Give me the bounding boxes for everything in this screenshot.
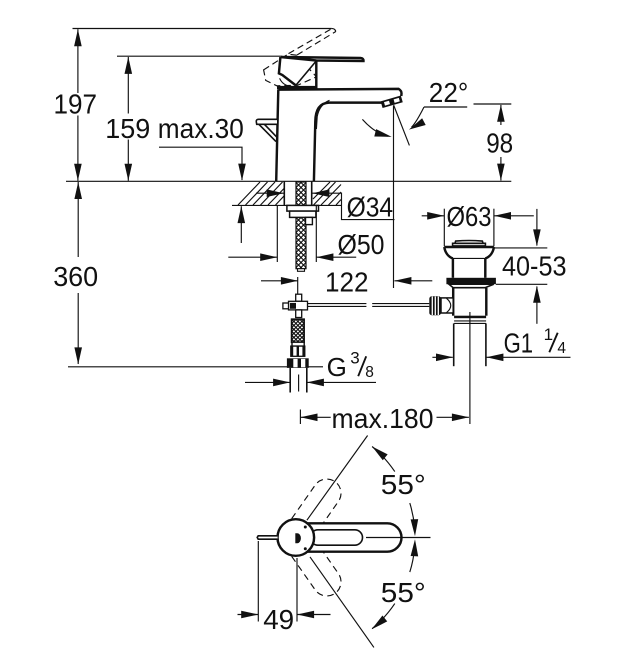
drain upper body [452,258,454,277]
braided hose [292,319,305,342]
svg-text:122: 122 [325,267,369,298]
dimension 98 ref line [474,103,512,105]
svg-text:98: 98 [486,128,513,159]
threaded shank tube below counter [283,182,285,206]
seal taper [449,284,494,288]
aerator (spout outlet, 22deg) [381,96,403,109]
dashed lever top view +55 [288,479,341,542]
lever pivot dots [304,526,307,529]
svg-text:49: 49 [263,604,294,635]
faucet body outline [276,89,401,181]
rod fitting bottom stem [296,310,302,318]
svg-text:G: G [327,352,347,382]
lever plinth (black bar) [277,86,318,89]
dimension 122 [297,277,299,299]
dimension 360 [77,182,79,257]
55deg upper arc [372,447,395,472]
dashed lever tip cap [332,29,336,32]
mounting washer [287,205,319,211]
22deg left arc arrow [362,119,387,136]
dimension 98 [500,105,502,125]
dimension G1 1/4 [432,356,452,358]
lever pivot body (solid) [279,57,316,85]
mounting nut [290,211,316,217]
svg-text:22°: 22° [429,77,469,108]
lever swing small arc [280,78,292,86]
counter hatching left [238,182,284,205]
drain center line [469,312,471,424]
dashed lever blade upper line [289,29,332,54]
22deg inclined line [394,105,410,145]
rod fitting block [289,301,308,310]
dashed lever blade lower line [297,32,336,56]
drain plug cap [453,243,486,246]
svg-text:1: 1 [544,325,553,344]
knurled knob (black) [429,296,441,315]
faucet body circle [278,519,315,556]
slotted nut [291,346,305,356]
collar bottom band [454,320,486,322]
O63 extension lines [443,209,445,247]
dimension G3/8 [245,381,290,383]
tailpipe [453,323,455,366]
ref line top (197) [73,28,332,30]
hex nut (dark) [287,358,309,368]
dashed lever pivot (raised position) [264,54,317,86]
body inner contour line [316,100,329,129]
svg-text:55°: 55° [381,577,426,608]
55deg lower arc [410,548,415,572]
svg-text:Ø63: Ø63 [447,201,492,232]
BOTTOM VIEW GROUP [238,436,431,648]
drain lower body [452,288,454,316]
nut tab [306,217,313,224]
rod fitting left cap [283,303,289,309]
svg-text:8: 8 [365,364,374,381]
svg-text:Ø50: Ø50 [338,229,385,260]
svg-text:G1: G1 [504,328,533,359]
dimension O34 [256,192,284,194]
dimension 40-53 [536,209,538,246]
svg-text:159: 159 [105,113,150,144]
hose white ring [292,342,304,346]
ref line 159 [117,55,280,57]
dimension O50 [276,206,278,262]
40-53 ref lines [494,247,547,249]
pop-up rod segment 2 [372,303,429,305]
dashed lever top view -55 [289,533,342,596]
lever neck right edge [315,60,317,86]
svg-text:55°: 55° [381,469,426,500]
SIDE VIEW GROUP [66,29,511,272]
spout rod (left) [257,536,277,539]
lever blade (solid) [280,57,363,61]
pop-up rod segment 1 [307,303,366,305]
lever top view outer capsule [300,523,402,551]
collar top band [454,316,486,319]
lever top view inner capsule [310,530,362,545]
DRAIN GROUP [422,201,571,424]
pull-rod knob diagonals [259,124,277,141]
counter hatching right [313,182,341,205]
drain rubber seal (black) [446,278,496,284]
svg-text:3: 3 [350,349,359,368]
cartridge mark (black D) [295,533,301,543]
horizontal axis line right [366,537,431,539]
22deg label underline [424,106,467,108]
svg-text:197: 197 [54,89,98,120]
svg-text:max.30: max.30 [158,113,244,144]
dimension 159 [127,57,129,114]
svg-text:max.180: max.180 [332,403,434,434]
counter bottom line [232,204,341,206]
dimension O63 [422,215,444,217]
svg-text:360: 360 [53,261,98,292]
svg-text:Ø34: Ø34 [347,192,394,223]
55deg lower line [310,557,374,648]
rod fitting top stem [296,294,302,301]
22deg vertical line [393,106,395,288]
svg-text:40-53: 40-53 [502,251,567,282]
G3/8 thread tube [289,368,291,393]
22deg right leader arrow [412,107,425,127]
drain flange [444,247,494,258]
dimension 49 [257,541,259,622]
ref line 360 bottom [68,366,290,368]
dimension 197 [77,29,79,93]
threaded rod bottom cap [298,269,305,272]
dimension max.180 [299,410,301,425]
rod fitting black square [290,303,296,309]
pull-rod knob [256,119,277,124]
counter top line [66,180,511,182]
DIMENSIONS GROUP [53,29,513,435]
threaded rod with crosshatch [296,182,306,269]
svg-text:4: 4 [557,340,566,357]
55deg upper line [307,436,368,521]
linkage connector housing [441,298,453,313]
SUPPLY GROUP [283,294,429,392]
